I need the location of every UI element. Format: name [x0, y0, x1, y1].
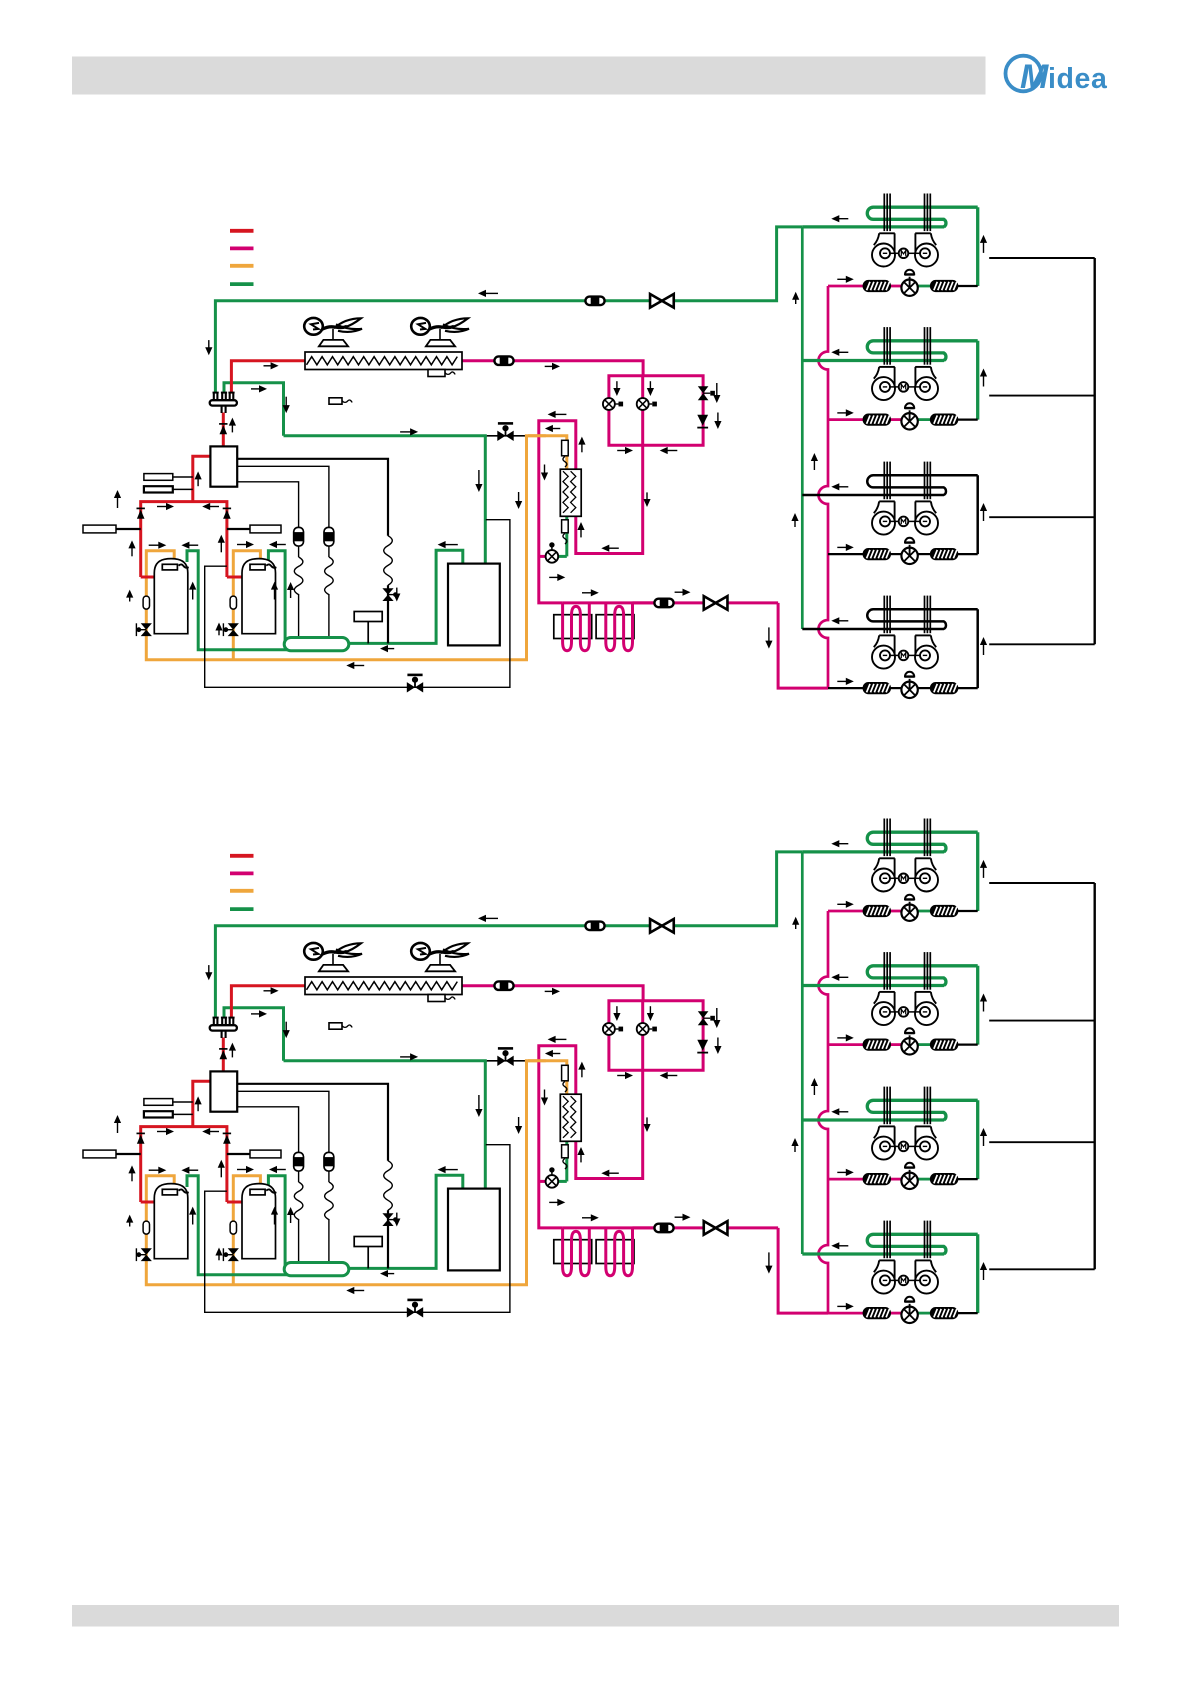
wire: oil separator inlet header	[193, 1081, 211, 1126]
high pressure switch 2	[250, 525, 281, 533]
indoor unit 2 fans	[872, 377, 895, 400]
compressor 2	[242, 559, 276, 634]
wire: liquid line to service valve	[633, 1226, 779, 1229]
indoor unit 3 EXV	[901, 1173, 917, 1189]
wire: oil separator return line 3	[237, 482, 298, 528]
legend: discharge pipe (red)	[230, 854, 254, 858]
indoor unit 4 strainer left	[863, 1308, 890, 1319]
wire: oil separator inlet header	[193, 456, 211, 501]
oil separator	[210, 1071, 237, 1111]
accumulator	[448, 1189, 500, 1271]
condenser temperature sensor	[428, 995, 445, 1002]
condenser fan 2	[426, 965, 455, 971]
ambient temperature sensor	[329, 398, 342, 404]
bypass check valve 2	[697, 415, 708, 426]
wire: oil balance enclosure line	[205, 1145, 510, 1313]
legend: gas pipe (green)	[230, 282, 254, 286]
wire: accumulator inlet drop	[484, 1061, 487, 1189]
indoor unit 3	[802, 1118, 944, 1121]
condenser fan 2	[426, 340, 455, 346]
liquid main drop to units	[778, 1228, 828, 1313]
4-way valve	[213, 393, 215, 401]
subcooler plate heat exchanger	[560, 1094, 581, 1141]
heat-recovery coil bank 1	[554, 1240, 592, 1264]
indoor unit 3 strainer left	[863, 549, 890, 560]
check valve compressor 1	[137, 1132, 145, 1134]
indoor unit 1	[802, 225, 944, 228]
indoor unit group bracket	[989, 882, 1094, 884]
oil sight glass line 3	[294, 527, 304, 546]
compressor 1	[154, 559, 188, 634]
indoor unit 1 fans	[872, 869, 895, 892]
liquid service valve	[704, 1221, 728, 1235]
legend: liquid pipe (magenta)	[230, 246, 254, 250]
sight glass liquid line	[654, 1224, 673, 1233]
heat-recovery coil bank 2	[596, 615, 634, 639]
gas service valve	[650, 294, 674, 308]
check valve compressor 1	[137, 507, 145, 509]
indoor unit 2	[802, 359, 944, 362]
indoor unit 1 strainer left	[863, 906, 890, 917]
wire: liquid to subcooler	[576, 445, 643, 553]
indoor unit 4 strainer right	[931, 683, 958, 694]
condenser heat exchanger	[305, 352, 462, 370]
compressor 2 oil sight glass	[230, 596, 236, 609]
indoor unit 1 EXV	[901, 905, 917, 921]
wire: main gas line from 4-way valve to indoor units	[215, 852, 802, 1019]
footer bar	[72, 1605, 1119, 1627]
gas riser	[801, 852, 804, 1254]
oil balance valve	[407, 1307, 415, 1317]
indoor unit 2 strainer left	[863, 414, 890, 425]
compressor 2 oil valve	[228, 1248, 239, 1254]
sight glass condenser outlet	[494, 356, 513, 365]
liquid riser with pipe hops	[819, 911, 829, 1313]
wire: main suction return	[349, 1175, 463, 1268]
oil valve line 1	[382, 588, 393, 594]
indoor unit 3 fans	[872, 512, 895, 535]
svg-text:idea: idea	[1048, 63, 1108, 95]
indoor unit 4 EXV	[901, 682, 917, 698]
legend: discharge pipe (red)	[230, 229, 254, 233]
high pressure switch 2	[250, 1150, 281, 1158]
bypass check valve 1	[698, 386, 709, 393]
compressor 1 oil sight glass	[143, 596, 149, 609]
subcooler EXV	[546, 1175, 559, 1188]
condenser fan 1	[319, 340, 348, 346]
EXV A	[603, 1023, 615, 1035]
indoor unit 2 EXV	[901, 413, 917, 429]
condenser fan 1	[319, 965, 348, 971]
wire: discharge line 4-way valve to condenser	[231, 361, 305, 394]
wire: suction gas from 4-way valve to accumulator	[224, 383, 284, 436]
sight glass condenser outlet	[494, 981, 513, 990]
wire: main gas line from 4-way valve to indoor units	[215, 227, 802, 394]
subcooler filter bottom	[562, 520, 569, 533]
bypass check valve 1	[698, 1011, 709, 1018]
check valve compressor 2	[223, 1132, 231, 1134]
subcooler filter top	[562, 440, 569, 456]
liquid service valve	[704, 596, 728, 610]
indoor unit 1 strainer left	[863, 281, 890, 292]
high pressure sensor	[144, 1099, 173, 1106]
check valve compressor 2	[223, 507, 231, 509]
gas service valve	[650, 919, 674, 933]
indoor unit 1 fans	[872, 244, 895, 267]
compressor 2 oil valve	[228, 623, 239, 629]
indoor unit 3 strainer right	[931, 549, 958, 560]
wire: compressor 1 suction	[187, 1176, 330, 1275]
oil collector stand	[354, 612, 382, 622]
indoor unit 4	[802, 1252, 944, 1255]
wire: compressor 2 oil line	[233, 1176, 260, 1285]
compressor 2 oil sight glass	[230, 1221, 236, 1234]
wire: oil separator return line 1	[237, 1084, 388, 1161]
indoor unit 1 strainer right	[931, 906, 958, 917]
heat-recovery coil bank 2	[596, 1240, 634, 1264]
wire: subcooler injection branch	[558, 1180, 567, 1183]
indoor unit 3	[802, 494, 944, 497]
legend: oil pipe (orange)	[230, 264, 254, 268]
oil solenoid valve	[497, 431, 505, 441]
sight glass liquid line	[654, 599, 673, 608]
wire: liquid line condenser to EXV box	[462, 361, 643, 376]
indoor unit 3 EXV	[901, 548, 917, 564]
sight glass gas line	[585, 297, 604, 306]
low pressure sensor	[144, 486, 173, 492]
liquid riser with pipe hops	[819, 286, 829, 688]
oil sight glass line 2	[324, 527, 334, 546]
high pressure switch 1	[83, 1150, 116, 1158]
flow arrows	[485, 917, 498, 919]
indoor unit 2 strainer right	[931, 414, 958, 425]
indoor unit 1	[802, 850, 944, 853]
legend: liquid pipe (magenta)	[230, 872, 254, 876]
indoor unit 2 strainer right	[931, 1039, 958, 1050]
wire: accumulator inlet drop	[484, 436, 487, 564]
subcooler plate heat exchanger	[560, 469, 581, 516]
oil balance valve	[407, 682, 415, 692]
wire: oil separator return line 2	[237, 466, 329, 527]
compressor 1 oil valve	[141, 1248, 152, 1254]
indoor unit 4 strainer left	[863, 683, 890, 694]
wire: compressor discharge stubs	[141, 1201, 155, 1204]
indoor unit 4 EXV	[901, 1307, 917, 1323]
EXV bypass box	[609, 1001, 703, 1071]
compressor 1 oil sight glass	[143, 1221, 149, 1234]
heat-recovery coil bank 1	[554, 615, 592, 639]
oil solenoid valve	[497, 1056, 505, 1066]
wire: oil separator return line 2	[237, 1091, 329, 1152]
subcooler filter bottom	[562, 1145, 569, 1158]
indoor unit 4 fans	[872, 646, 895, 669]
sight glass gas line	[585, 922, 604, 931]
compressor 1 oil valve	[141, 623, 152, 629]
indoor unit 2 fans	[872, 1002, 895, 1025]
wire: link to oil solenoid valve	[487, 435, 525, 437]
suction header capsule	[284, 638, 349, 651]
oil collector stand	[354, 1237, 382, 1247]
wire: subcooler injection branch	[558, 555, 567, 558]
wire: link to oil solenoid valve	[487, 1060, 525, 1062]
legend: gas pipe (green)	[230, 907, 254, 911]
oil sight glass line 2	[324, 1152, 334, 1171]
wire: discharge line 4-way valve to condenser	[231, 986, 305, 1019]
wire: compressor discharge stubs	[141, 576, 155, 579]
subcooler filter top	[562, 1065, 569, 1081]
indoor unit 3 fans	[872, 1137, 895, 1160]
wire: suction gas from 4-way valve to accumulator	[224, 1008, 284, 1061]
indoor unit 2	[802, 984, 944, 987]
indoor unit 4 strainer right	[931, 1308, 958, 1319]
EXV bypass box	[609, 376, 703, 446]
4-way valve	[213, 1018, 215, 1026]
condenser heat exchanger	[305, 977, 462, 995]
oil separator	[210, 446, 237, 486]
suction header capsule	[284, 1263, 349, 1276]
indoor unit 1 EXV	[901, 280, 917, 296]
EXV A	[603, 398, 615, 410]
flow arrows	[485, 292, 498, 294]
wire: oil balance enclosure line	[205, 520, 510, 688]
wire: liquid to subcooler	[576, 1070, 643, 1178]
ambient temperature sensor	[329, 1023, 342, 1029]
wire: compressor 2 oil line	[233, 551, 260, 660]
subcooler EXV	[546, 550, 559, 563]
low pressure sensor	[144, 1111, 173, 1117]
indoor unit 4 fans	[872, 1271, 895, 1294]
indoor unit group bracket	[989, 257, 1094, 259]
bypass check valve 2	[697, 1040, 708, 1051]
EXV B	[637, 398, 649, 410]
indoor unit 2 EXV	[901, 1038, 917, 1054]
indoor unit 3 strainer left	[863, 1174, 890, 1185]
check valve discharge	[219, 423, 227, 425]
wire: liquid line condenser to EXV box	[462, 986, 643, 1001]
check valve discharge	[219, 1048, 227, 1050]
Midea logo	[1006, 56, 1108, 96]
compressor 2	[242, 1184, 276, 1259]
header bar	[72, 57, 986, 95]
diagram 1: cooling mode	[83, 194, 1095, 699]
wire: oil separator return line 1	[237, 459, 388, 536]
legend: oil pipe (orange)	[230, 889, 254, 893]
wire: discharge riser from oil separator to 4-way valve	[222, 1038, 225, 1072]
indoor unit 1 strainer right	[931, 281, 958, 292]
EXV B	[637, 1023, 649, 1035]
accumulator	[448, 564, 500, 646]
wire: oil return line (orange)	[525, 436, 567, 469]
liquid main drop to units	[778, 603, 828, 688]
high pressure switch 1	[83, 525, 116, 533]
oil sight glass line 3	[294, 1152, 304, 1171]
high pressure sensor	[144, 474, 173, 481]
indoor unit 2 strainer left	[863, 1039, 890, 1050]
wire: oil return line (orange)	[525, 1061, 567, 1094]
oil valve line 1	[382, 1213, 393, 1219]
indoor unit 3 strainer right	[931, 1174, 958, 1185]
diagram 2: heating mode	[83, 819, 1095, 1324]
compressor 1	[154, 1184, 188, 1259]
svg-text:M: M	[1020, 58, 1049, 96]
condenser temperature sensor	[428, 370, 445, 377]
gas riser	[801, 227, 804, 629]
wire: liquid line to service valve	[633, 601, 779, 604]
wire: compressor 1 suction	[187, 551, 330, 650]
wire: compressor 2 suction	[268, 551, 285, 641]
wire: oil separator return line 3	[237, 1107, 298, 1153]
indoor unit 4	[802, 628, 944, 631]
wire: discharge riser from oil separator to 4-way valve	[222, 413, 225, 447]
wire: main suction return	[349, 550, 463, 643]
wire: compressor 2 suction	[268, 1176, 285, 1266]
